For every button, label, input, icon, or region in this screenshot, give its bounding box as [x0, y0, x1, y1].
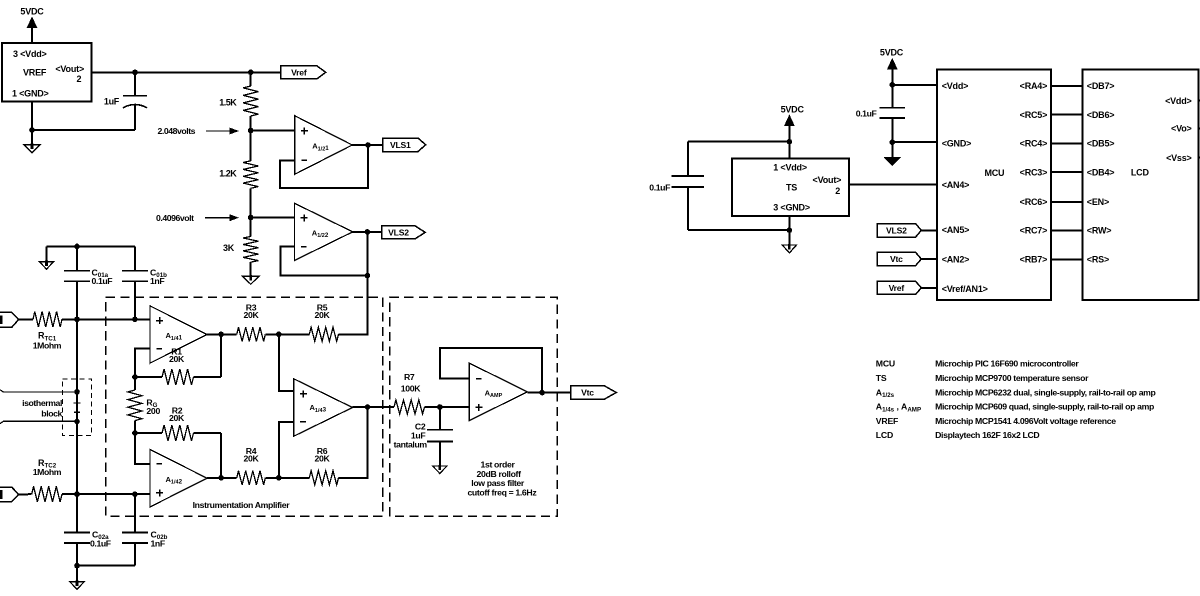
- svg-text:20K: 20K: [169, 354, 185, 364]
- svg-text:<Vdd>: <Vdd>: [1165, 96, 1192, 106]
- pin Vo of LCD: [1171, 124, 1200, 134]
- wire divider top: [250, 72, 252, 86]
- svg-text:<RC3>: <RC3>: [1020, 167, 1048, 177]
- voltage reference VREF box: [2, 43, 92, 102]
- svg-text:Instrumentation Amplifier: Instrumentation Amplifier: [193, 500, 291, 510]
- svg-text:Microchip MCP6232 dual, single: Microchip MCP6232 dual, single-supply, r…: [935, 387, 1155, 397]
- wire top ground rail: [47, 246, 135, 261]
- svg-text:MCU: MCU: [984, 168, 1004, 178]
- wire A1/4:3 -input: [279, 422, 294, 478]
- svg-text:<GND>: <GND>: [942, 139, 972, 149]
- op-amp A1/2:2 buffer: [294, 203, 352, 260]
- wire Rg top: [134, 377, 136, 390]
- svg-text:1Mohm: 1Mohm: [33, 467, 62, 477]
- svg-text:<Vo>: <Vo>: [1171, 124, 1192, 134]
- svg-text:2.048volts: 2.048volts: [158, 126, 196, 136]
- wire R6 to output: [339, 407, 368, 478]
- wire 3K to ground: [250, 262, 252, 276]
- svg-text:Displaytech 162F 16x2 LCD: Displaytech 162F 16x2 LCD: [935, 430, 1039, 440]
- junction ground rail / C01a: [74, 244, 80, 250]
- junction R7/C2: [437, 404, 443, 410]
- op-amp A1/4:3: [294, 379, 353, 437]
- flag Vtc to MCU AN2: [877, 252, 937, 265]
- junction MCU GND node: [890, 139, 896, 145]
- wire divider seg3: [250, 188, 252, 236]
- pin 2 Vout of VREF: [55, 64, 84, 84]
- wire A1/4:1 -input: [135, 349, 150, 377]
- svg-text:5VDC: 5VDC: [781, 104, 805, 114]
- svg-text:low pass filter: low pass filter: [471, 478, 525, 488]
- svg-text:2: 2: [76, 74, 81, 84]
- svg-text:cutoff freq = 1.6Hz: cutoff freq = 1.6Hz: [467, 488, 537, 498]
- resistor R5 20K: [309, 302, 338, 341]
- ground (TS): [782, 244, 796, 253]
- power 5VDC (TS supply): [781, 104, 805, 158]
- svg-text:1.2K: 1.2K: [219, 169, 237, 179]
- wire R4-R6 node: [265, 477, 309, 479]
- svg-text:0.1uF: 0.1uF: [649, 182, 670, 192]
- flag Vref to MCU Vref/AN1: [877, 281, 937, 294]
- svg-text:R7: R7: [404, 372, 415, 382]
- svg-text:<RC4>: <RC4>: [1020, 139, 1048, 149]
- capacitor C01b 1nF: [122, 246, 167, 319]
- junction R3/R5/+input3: [276, 332, 282, 338]
- svg-text:<AN2>: <AN2>: [942, 255, 970, 265]
- resistor R4 20K: [237, 446, 266, 485]
- legend MCU: [876, 359, 1080, 369]
- svg-text:block: block: [41, 408, 62, 418]
- isothermal - mark: [74, 411, 80, 413]
- resistor 3K: [223, 236, 258, 262]
- junction TC2/C02a/isothermal: [74, 491, 80, 497]
- svg-text:TS: TS: [876, 373, 887, 383]
- resistor Rg 200: [128, 390, 161, 421]
- pin 2 Vout of TS: [813, 175, 842, 196]
- temperature sensor TS box: [732, 158, 849, 216]
- resistor 1.5K: [219, 86, 258, 116]
- junction R4/R6/-input3: [276, 475, 282, 481]
- svg-text:200: 200: [146, 406, 160, 416]
- pin Vss of LCD: [1166, 153, 1200, 163]
- isothermal block dashed outline: [63, 379, 92, 436]
- svg-text:20K: 20K: [169, 413, 185, 423]
- wire A1/4:3 output: [353, 406, 395, 408]
- wire RC6-EN: [1051, 201, 1083, 203]
- junction Rg/R2/-input2: [132, 430, 138, 436]
- junction A1/4:1 output/R3: [218, 332, 224, 338]
- op-amp A1/2:1 buffer: [295, 116, 353, 175]
- junction MCU Vdd node: [890, 82, 896, 88]
- svg-text:tantalum: tantalum: [394, 440, 428, 450]
- svg-text:Microchip PIC 16F690 microcont: Microchip PIC 16F690 microcontroller: [935, 359, 1079, 369]
- label low pass filter description: [467, 459, 537, 497]
- svg-text:<DB5>: <DB5>: [1087, 139, 1115, 149]
- svg-text:0.1uF: 0.1uF: [92, 276, 113, 286]
- svg-text:<AN4>: <AN4>: [942, 180, 970, 190]
- wire A1/4:2 -input: [135, 433, 150, 464]
- wire VLS2 net down to R5: [339, 276, 368, 335]
- legend A1/2s: [876, 387, 1156, 399]
- pin Vdd of LCD: [1165, 96, 1200, 106]
- flag VLS2 to MCU AN5: [877, 224, 937, 238]
- junction bottom ground node: [74, 563, 80, 569]
- ground (divider): [242, 275, 259, 284]
- resistor RTC2 1Mohm: [32, 458, 62, 502]
- svg-text:0.4096volt: 0.4096volt: [156, 213, 194, 223]
- wire isothermal vertical TC1->TC2: [76, 319, 78, 494]
- power 5VDC (VREF supply): [20, 7, 44, 43]
- svg-text:5VDC: 5VDC: [20, 7, 44, 17]
- svg-text:VLS2: VLS2: [388, 227, 409, 237]
- svg-text:<DB6>: <DB6>: [1087, 110, 1115, 120]
- wire RC7-RW: [1051, 230, 1083, 232]
- svg-text:0.1uF: 0.1uF: [90, 539, 111, 549]
- junction TC1/C01a/isothermal: [74, 317, 80, 323]
- wire MCU GND: [892, 118, 937, 158]
- svg-text:1 <Vdd>: 1 <Vdd>: [773, 162, 807, 172]
- junction TC1/C01b: [132, 317, 138, 323]
- junction VLS2 output node: [365, 229, 371, 235]
- junction VLS1 node: [365, 142, 371, 148]
- junction A1/4:2 output/R4: [218, 475, 224, 481]
- wire A1/2:1 +input: [251, 130, 295, 132]
- resistor R6 20K: [309, 446, 338, 485]
- wire TS Vout to MCU AN4: [849, 184, 937, 186]
- svg-text:Microchip MCP9700 temperature: Microchip MCP9700 temperature sensor: [935, 373, 1089, 383]
- ground (C2): [433, 465, 448, 474]
- wire RA4-DB7: [1051, 85, 1083, 87]
- resistor R1 20K (feedback): [135, 346, 221, 385]
- wire TC2 input: [19, 493, 32, 495]
- wire RC3-DB4: [1051, 171, 1083, 173]
- svg-text:2: 2: [835, 186, 840, 196]
- svg-text:<AN5>: <AN5>: [942, 225, 970, 235]
- resistor R2 20K (feedback A1/4:2): [135, 405, 221, 441]
- svg-text:LCD: LCD: [876, 430, 893, 440]
- junction GND node: [29, 127, 35, 133]
- junction A1/4:3 output/R6: [365, 404, 371, 410]
- flag VLS1: [383, 138, 426, 152]
- flag Vref output: [281, 66, 326, 79]
- legend A1/4s AMP: [876, 402, 1154, 414]
- wire Rg bottom: [134, 421, 136, 433]
- junction 0.4096V node: [248, 215, 254, 221]
- op-amp A1/4:2: [150, 449, 207, 507]
- svg-text:<EN>: <EN>: [1087, 197, 1109, 207]
- wire MCU Vdd: [892, 84, 937, 86]
- svg-text:1.5K: 1.5K: [219, 98, 237, 108]
- wire divider seg2: [250, 116, 252, 161]
- svg-text:20K: 20K: [314, 310, 330, 320]
- svg-text:20K: 20K: [243, 310, 259, 320]
- capacitor C2 1uF tantalum: [394, 407, 453, 466]
- wire A1/4:2 output: [207, 477, 237, 479]
- junction 2.048V node: [248, 128, 254, 134]
- svg-text:VREF: VREF: [876, 416, 898, 426]
- svg-text:20K: 20K: [243, 454, 259, 464]
- svg-text:VLS1: VLS1: [390, 140, 411, 150]
- svg-text:<RS>: <RS>: [1087, 255, 1109, 265]
- legend LCD: [876, 430, 1040, 440]
- capacitor 0.1uF (MCU bypass): [856, 108, 905, 119]
- resistor R3 20K: [237, 302, 266, 341]
- svg-text:<Vref/AN1>: <Vref/AN1>: [942, 284, 988, 294]
- wire A1/4:1 feedback vertical: [220, 334, 222, 377]
- junction R1/Rg/-input: [132, 374, 138, 380]
- svg-text:1Mohm: 1Mohm: [33, 340, 62, 350]
- capacitor 1uF (VREF output): [104, 72, 147, 130]
- wire A1/2:1 output: [352, 144, 383, 146]
- svg-text:<DB4>: <DB4>: [1087, 167, 1115, 177]
- wire VREF GND to ground: [32, 102, 135, 145]
- svg-text:1nF: 1nF: [151, 539, 165, 549]
- wire A1/4:1 output: [207, 333, 237, 335]
- node 0.4096volt: [156, 213, 238, 223]
- wire RC4-DB5: [1051, 142, 1083, 144]
- svg-text:<RB7>: <RB7>: [1020, 255, 1048, 265]
- input flag TC1: [0, 312, 19, 327]
- wire bottom caps to ground: [77, 566, 135, 582]
- op-amp A1/4:1: [150, 306, 207, 363]
- capacitor C01a 0.1uF: [64, 246, 112, 319]
- wire TC1 to A1/4:1 +input: [62, 318, 150, 320]
- svg-text:3 <Vdd>: 3 <Vdd>: [13, 49, 47, 59]
- resistor 1.2K: [219, 161, 258, 189]
- wire RB7-RS: [1051, 259, 1083, 261]
- capacitor C02a 0.1uF: [64, 494, 111, 566]
- wire A1/2:2 +input: [251, 217, 295, 219]
- svg-text:5VDC: 5VDC: [880, 48, 904, 58]
- svg-text:TS: TS: [786, 183, 797, 193]
- ground (VREF): [24, 144, 40, 153]
- svg-text:<Vout>: <Vout>: [813, 175, 842, 185]
- svg-text:<Vdd>: <Vdd>: [942, 81, 969, 91]
- svg-text:Microchip MCP1541 4.096Volt vo: Microchip MCP1541 4.096Volt voltage refe…: [935, 416, 1116, 426]
- svg-text:VREF: VREF: [23, 68, 47, 78]
- isothermal block callout: [0, 390, 77, 424]
- wire TC2 to A1/4:2 +input: [62, 493, 150, 495]
- wire A1/2:2 feedback: [280, 232, 367, 276]
- ground (input filter bottom): [70, 581, 85, 590]
- flag VLS2 (left): [382, 226, 425, 239]
- svg-text:<RA4>: <RA4>: [1020, 81, 1048, 91]
- svg-text:1 <GND>: 1 <GND>: [12, 89, 49, 99]
- svg-text:1nF: 1nF: [150, 276, 164, 286]
- ground (MCU, filled): [885, 158, 900, 166]
- display LCD box: [1083, 69, 1199, 300]
- wire RC5-DB6: [1051, 114, 1083, 116]
- junction Vout/cap: [132, 70, 138, 76]
- wire R3-R5 node: [265, 333, 309, 335]
- ground (input filter top): [40, 261, 54, 270]
- svg-text:3 <GND>: 3 <GND>: [773, 203, 810, 213]
- legend TS: [876, 373, 1089, 383]
- power 5VDC (MCU supply): [880, 48, 904, 108]
- wire TC1 input: [19, 318, 33, 320]
- svg-text:LCD: LCD: [1131, 167, 1150, 177]
- instrumentation amplifier dashed box: [106, 297, 383, 516]
- wire A1/2:1 feedback: [280, 145, 368, 188]
- flag Vtc output: [571, 386, 617, 399]
- node isothermal - junction: [74, 419, 80, 425]
- svg-text:3K: 3K: [223, 243, 235, 253]
- junction Vout/divider: [248, 70, 254, 76]
- svg-text:0.1uF: 0.1uF: [856, 108, 877, 118]
- svg-text:Vref: Vref: [291, 67, 307, 77]
- wire A1/2:2 output: [353, 231, 382, 233]
- svg-text:<Vout>: <Vout>: [55, 64, 84, 74]
- svg-text:<RW>: <RW>: [1087, 226, 1112, 236]
- wire R7 to AMP +input: [425, 406, 470, 408]
- svg-text:VLS2: VLS2: [886, 225, 907, 235]
- wire AMP output: [527, 392, 570, 394]
- capacitor 0.1uF (TS bypass): [649, 142, 789, 231]
- svg-text:Microchip MCP609 quad, single-: Microchip MCP609 quad, single-supply, ra…: [935, 402, 1154, 412]
- svg-text:1uF: 1uF: [104, 97, 120, 107]
- wire TS GND: [788, 216, 790, 245]
- svg-text:<DB7>: <DB7>: [1087, 81, 1115, 91]
- svg-text:isothermal: isothermal: [22, 398, 62, 408]
- junction TC2/C02b: [132, 491, 138, 497]
- svg-text:MCU: MCU: [876, 359, 895, 369]
- svg-text:Vtc: Vtc: [581, 388, 594, 398]
- svg-text:100K: 100K: [401, 384, 422, 394]
- legend VREF: [876, 416, 1116, 426]
- isothermal + mark: [74, 402, 81, 404]
- resistor R7 100K: [394, 372, 425, 414]
- junction TS Vdd/cap: [787, 139, 793, 145]
- svg-text:Vref: Vref: [889, 283, 905, 293]
- svg-text:<RC6>: <RC6>: [1020, 197, 1048, 207]
- svg-text:<RC7>: <RC7>: [1020, 226, 1048, 236]
- svg-text:<RC5>: <RC5>: [1020, 110, 1048, 120]
- svg-text:20K: 20K: [314, 454, 330, 464]
- junction TS GND/cap: [787, 227, 793, 233]
- microcontroller MCU box: [937, 69, 1051, 300]
- wire AMP feedback: [440, 348, 542, 393]
- junction Vtc node: [539, 390, 545, 396]
- wire Vref net from VREF Vout to flag: [92, 71, 281, 73]
- low pass filter dashed box: [390, 297, 558, 516]
- wire A1/4:2 feedback vertical: [220, 433, 222, 478]
- resistor RTC1 1Mohm: [33, 312, 62, 351]
- svg-text:Vtc: Vtc: [890, 254, 903, 264]
- op-amp AMP (output buffer): [469, 363, 527, 421]
- node isothermal + junction: [74, 389, 80, 395]
- svg-text:<Vss>: <Vss>: [1166, 153, 1192, 163]
- junction VLS2 feedback node: [365, 273, 371, 279]
- wire A1/4:3 +input: [279, 334, 294, 391]
- node 2.048volts: [158, 126, 238, 136]
- capacitor C02b 1nF: [122, 494, 168, 566]
- svg-text:1st order: 1st order: [480, 459, 515, 469]
- input flag TC2: [0, 487, 19, 501]
